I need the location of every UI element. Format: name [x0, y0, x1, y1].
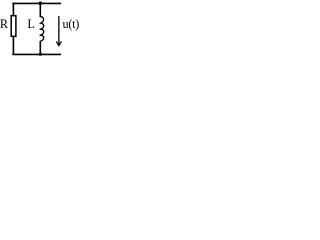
inductor L coil [40, 17, 44, 41]
wire inductor bottom stub [39, 41, 41, 54]
node top junction [39, 2, 43, 6]
wire left branch lower [12, 36, 14, 54]
voltage arrow u(t) head [56, 41, 61, 45]
wire left branch upper [12, 3, 14, 16]
wire bottom horizontal [12, 53, 61, 55]
resistor R [11, 16, 16, 37]
svg-text:L: L [27, 17, 34, 31]
wire inductor top stub [39, 3, 41, 17]
svg-text:u(t): u(t) [63, 17, 80, 31]
wire top horizontal [12, 2, 61, 4]
svg-text:R: R [0, 17, 9, 31]
node bottom junction [39, 53, 42, 56]
voltage arrow u(t) shaft [58, 16, 60, 45]
